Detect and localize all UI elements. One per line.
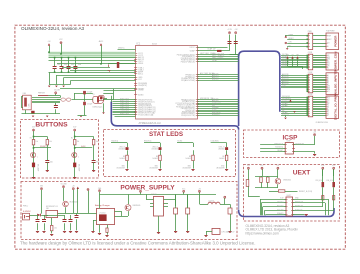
svg-text:T: T — [37, 157, 38, 159]
svg-text:RESET: RESET — [289, 38, 294, 40]
svg-text:CON3: CON3 — [308, 94, 313, 96]
svg-text:POWER_SUPPLY: POWER_SUPPLY — [120, 185, 175, 192]
svg-text:C5 22pF: C5 22pF — [87, 92, 92, 94]
svg-text:100n: 100n — [64, 64, 68, 66]
svg-text:LED1_G: LED1_G — [152, 146, 159, 148]
svg-text:R8: R8 — [156, 156, 158, 158]
svg-text:Battery Charger: Battery Charger — [95, 204, 110, 207]
svg-text:PGM_D1(D): PGM_D1(D) — [120, 110, 129, 112]
svg-text:LED0603/GR: LED0603/GR — [117, 168, 125, 170]
svg-text:C6 22pF: C6 22pF — [87, 104, 92, 106]
svg-text:FERRITE: FERRITE — [38, 93, 45, 95]
svg-text:UEXT: UEXT — [287, 195, 292, 197]
svg-text:RESET: RESET — [277, 150, 283, 152]
svg-text:3.3V: 3.3V — [289, 42, 292, 44]
svg-text:PGM_D1(D): PGM_D1(D) — [120, 100, 129, 102]
svg-text:LED1_G: LED1_G — [219, 146, 226, 148]
svg-text:SCL: SCL — [327, 91, 330, 93]
svg-text:100n: 100n — [57, 64, 61, 66]
svg-text:PGM_D4(D): PGM_D4(D) — [120, 113, 129, 115]
svg-text:+5V: +5V — [198, 189, 201, 191]
svg-text:R1: R1 — [30, 137, 32, 139]
svg-text:10k: 10k — [54, 227, 57, 229]
svg-text:POWER: POWER — [333, 35, 337, 47]
svg-text:PE6(INT6): PE6(INT6) — [138, 85, 147, 87]
svg-text:MISO(D14): MISO(D14) — [295, 202, 304, 204]
svg-text:3.3V: 3.3V — [321, 165, 324, 167]
svg-text:(RESET): (RESET) — [40, 146, 47, 148]
svg-text:IOREF: IOREF — [289, 34, 294, 36]
svg-text:LED0603: LED0603 — [218, 148, 224, 150]
svg-text:https://www.olimex.com: https://www.olimex.com — [246, 231, 280, 235]
svg-text:DMG2305: DMG2305 — [283, 179, 291, 181]
svg-text:LED0603/GR: LED0603/GR — [216, 168, 224, 170]
svg-text:R8: R8 — [222, 156, 224, 158]
svg-text:10k: 10k — [96, 141, 99, 143]
svg-text:DIGITAL_IO_PWM: DIGITAL_IO_PWM — [333, 94, 337, 120]
svg-text:The hardware design by Olimex: The hardware design by Olimex LTD is lic… — [20, 240, 255, 245]
svg-text:B3U-1000P: B3U-1000P — [78, 164, 80, 171]
svg-text:MISO(D14): MISO(D14) — [274, 143, 283, 145]
svg-text:AVCC: AVCC — [138, 72, 144, 75]
svg-text:LTC4054: LTC4054 — [99, 212, 105, 214]
svg-text:PF5(ADC5/TMS): PF5(ADC5/TMS) — [181, 79, 195, 82]
svg-text:OLIMEXINO-32U4, revision A3: OLIMEXINO-32U4, revision A3 — [21, 26, 85, 31]
svg-text:CON1: CON1 — [308, 52, 313, 54]
svg-text:SCK(D15): SCK(D15) — [295, 209, 303, 211]
svg-text:TXLED: TXLED — [177, 140, 183, 142]
svg-text:+5V: +5V — [72, 186, 75, 188]
svg-text:D12: D12 — [327, 99, 330, 101]
svg-text:R8: R8 — [123, 156, 125, 158]
svg-text:UCAP: UCAP — [190, 50, 196, 53]
svg-text:LED1_G: LED1_G — [119, 146, 126, 148]
svg-text:AREF: AREF — [282, 85, 287, 88]
svg-text:RESET: RESET — [327, 39, 332, 41]
svg-text:T: T — [78, 157, 79, 159]
svg-text:A(D6): A(D6) — [81, 145, 86, 148]
svg-text:UVCC: UVCC — [190, 47, 196, 49]
svg-text:RX(LED2): RX(LED2) — [144, 140, 152, 142]
svg-text:PGM_D7(D): PGM_D7(D) — [120, 106, 129, 108]
svg-text:PWR_J: PWR_J — [23, 205, 28, 207]
svg-text:IOREF: IOREF — [327, 35, 331, 37]
svg-text:+5V: +5V — [277, 165, 280, 167]
svg-text:TXD(D1): TXD(D1) — [277, 202, 284, 204]
svg-text:5V: 5V — [289, 45, 291, 47]
svg-text:PD5(XCK1/CTS): PD5(XCK1/CTS) — [181, 115, 195, 117]
svg-text:SCL(D3): SCL(D3) — [277, 209, 284, 211]
svg-text:1k/0603: 1k/0603 — [185, 158, 191, 160]
svg-text:UEXT: UEXT — [293, 170, 311, 177]
svg-text:CON2: CON2 — [308, 72, 313, 74]
svg-text:LED0603: LED0603 — [152, 148, 158, 150]
svg-text:TX(LED1): TX(LED1) — [111, 140, 119, 142]
svg-text:STAT LEDS: STAT LEDS — [149, 131, 183, 138]
svg-text:IC1: IC1 — [137, 43, 141, 46]
svg-text:R14_4.7k: R14_4.7k — [327, 180, 334, 182]
svg-text:100n: 100n — [50, 161, 53, 163]
svg-text:SY8009: SY8009 — [151, 194, 157, 196]
svg-text:MISO/MOSI_ SPI: MISO/MOSI_ SPI — [200, 98, 214, 100]
svg-text:D5: D5 — [282, 66, 284, 68]
svg-text:LED0603: LED0603 — [119, 148, 125, 150]
svg-text:GND: GND — [327, 57, 330, 59]
svg-text:D13(LED3): D13(LED3) — [211, 140, 219, 142]
svg-text:ADC_MUX_A2..A5: ADC_MUX_A2..A5 — [200, 72, 214, 75]
svg-text:5V_USB: 5V_USB — [54, 90, 60, 92]
svg-text:PGM_D9(D): PGM_D9(D) — [120, 108, 129, 110]
svg-text:R8: R8 — [189, 156, 191, 158]
svg-text:100n: 100n — [78, 64, 82, 66]
svg-text:PGM_D9(D): PGM_D9(D) — [120, 99, 129, 101]
svg-text:D8: D8 — [327, 106, 329, 108]
svg-text:10k: 10k — [49, 141, 52, 143]
svg-text:DMN2041L: DMN2041L — [133, 205, 141, 207]
svg-text:USB: USB — [23, 93, 26, 95]
svg-text:D4: D4 — [327, 113, 329, 115]
svg-text:PGM_D3(D): PGM_D3(D) — [120, 102, 129, 104]
svg-text:3V3: 3V3 — [286, 54, 289, 56]
svg-text:RESET_E (D13): RESET_E (D13) — [299, 191, 313, 193]
svg-text:AGND: AGND — [138, 94, 144, 97]
svg-text:1k/0603: 1k/0603 — [119, 158, 125, 160]
svg-text:PGM_D2(D): PGM_D2(D) — [120, 112, 129, 114]
svg-text:AVCC: AVCC — [99, 40, 104, 43]
svg-text:LED0603/GR: LED0603/GR — [150, 168, 158, 170]
svg-text:VBUS: VBUS — [138, 63, 144, 65]
svg-text:A2(D20): A2(D20) — [212, 78, 219, 81]
svg-text:10k: 10k — [36, 141, 39, 143]
svg-text:PC6(OC3A/OC4A): PC6(OC3A/OC4A) — [138, 113, 153, 116]
svg-text:POWER_CON: POWER_CON — [333, 52, 337, 72]
svg-text:5V_USB: 5V_USB — [61, 184, 67, 186]
svg-text:D4/A6: D4/A6 — [212, 59, 217, 62]
svg-text:UGND: UGND — [138, 90, 144, 92]
svg-text:PD4(ICP1/ADC8): PD4(ICP1/ADC8) — [181, 60, 195, 63]
svg-text:LED0603/GR: LED0603/GR — [183, 168, 191, 170]
svg-text:ANALOG_INPUTS: ANALOG_INPUTS — [333, 71, 337, 97]
svg-text:3.3V: 3.3V — [139, 189, 142, 191]
svg-text:Q1: Q1 — [93, 94, 95, 96]
svg-text:UCAP 1uF: UCAP 1uF — [207, 47, 215, 50]
svg-text:1k/0603: 1k/0603 — [219, 158, 225, 160]
svg-text:RXD(D0): RXD(D0) — [277, 205, 284, 207]
svg-text:PGM_D5(D): PGM_D5(D) — [120, 104, 129, 106]
svg-text:MC33269DT-3.3: MC33269DT-3.3 — [46, 206, 58, 208]
svg-text:RST: RST — [327, 64, 330, 66]
svg-text:L1 10uH: L1 10uH — [208, 200, 214, 202]
svg-text:100n: 100n — [96, 161, 99, 163]
svg-text:LIPO_BATT 3.7V: LIPO_BATT 3.7V — [222, 230, 236, 233]
svg-text:VIN: VIN — [296, 54, 299, 56]
svg-text:ATMEGA32U4-AU: ATMEGA32U4-AU — [139, 121, 161, 125]
svg-text:6-16VDC: 6-16VDC — [23, 211, 31, 213]
svg-text:MOSI(D16): MOSI(D16) — [295, 205, 304, 207]
svg-text:16MHz/20ppm: 16MHz/20ppm — [93, 106, 104, 108]
svg-text:SCK(D15): SCK(D15) — [212, 114, 220, 116]
svg-text:BUTTONS: BUTTONS — [35, 121, 68, 128]
svg-text:R13_4.7k: R13_4.7k — [316, 180, 323, 182]
svg-text:VR1: VR1 — [46, 208, 49, 210]
svg-text:UEXT_BUF_ RX/TX: UEXT_BUF_ RX/TX — [200, 53, 216, 55]
svg-text:B3U-1000P: B3U-1000P — [37, 164, 39, 171]
svg-text:OLIMEXINO-32U4: OLIMEXINO-32U4 — [316, 122, 329, 124]
svg-text:MOSI(D16): MOSI(D16) — [296, 143, 305, 145]
svg-text:USBVCC: USBVCC — [118, 48, 125, 50]
svg-text:5V: 5V — [292, 54, 294, 56]
svg-text:1k/0603: 1k/0603 — [152, 158, 158, 160]
svg-text:SCK(D15): SCK(D15) — [275, 147, 283, 149]
svg-text:100n: 100n — [71, 64, 75, 66]
svg-text:10k: 10k — [77, 141, 80, 143]
svg-text:R1: R1 — [71, 137, 73, 139]
svg-text:3.3V: 3.3V — [247, 165, 250, 167]
